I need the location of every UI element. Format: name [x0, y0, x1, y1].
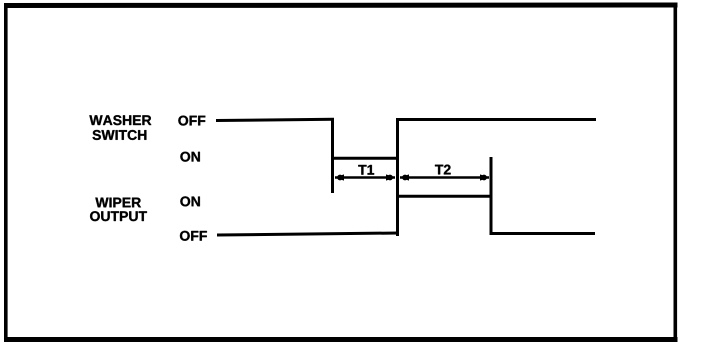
label SWITCH — [93, 130, 147, 140]
label T2 — [435, 165, 451, 175]
label OFF (washer) — [178, 116, 205, 126]
label OUTPUT — [90, 211, 147, 221]
wire washer OFF level right segment — [396, 118, 596, 121]
wire wiper OFF level left segment — [217, 233, 399, 235]
dimension arrow T2 — [400, 174, 489, 180]
wire washer rising edge (shared vertical) — [396, 118, 399, 236]
label ON (washer) — [180, 152, 199, 162]
wire wiper OFF level right segment — [490, 232, 596, 235]
wire washer OFF level left segment — [216, 119, 334, 120]
dimension arrow T1 — [335, 174, 395, 180]
wire washer ON level segment — [331, 157, 399, 160]
wire wiper falling edge — [490, 157, 493, 235]
label WASHER — [89, 115, 151, 125]
wire washer falling edge — [331, 118, 334, 193]
label WIPER — [95, 198, 141, 208]
label T1 — [358, 165, 374, 175]
wire wiper ON level segment — [397, 195, 491, 198]
label ON (wiper) — [180, 196, 199, 206]
label OFF (wiper) — [180, 231, 207, 241]
